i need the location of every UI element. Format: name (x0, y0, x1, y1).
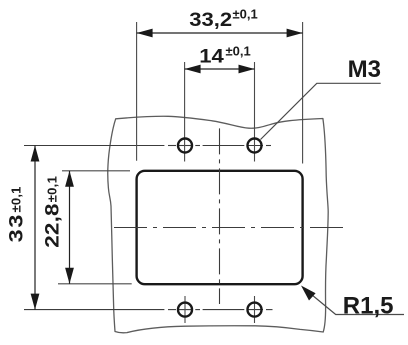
hole bottom-left M3 (178, 303, 192, 317)
svg-text:14: 14 (199, 46, 224, 67)
svg-text:±0,1: ±0,1 (226, 43, 251, 58)
extension lines of dimension 22,8 (62, 170, 130, 172)
dimension line 14 with arrows (185, 68, 255, 70)
svg-text:M3: M3 (348, 56, 381, 83)
dimension text 22,8 ±0,1 (rotated) (42, 176, 63, 248)
svg-text:±0,1: ±0,1 (8, 186, 23, 212)
horizontal centerline (114, 227, 344, 229)
hole top-right M3 (248, 139, 262, 153)
svg-text:33: 33 (5, 213, 26, 243)
extension line 33 top / centerline through top holes (24, 145, 271, 147)
svg-text:22,8: 22,8 (42, 203, 63, 248)
svg-text:33,2: 33,2 (189, 9, 232, 30)
dimension line 33,2 with arrows (137, 32, 303, 34)
extension lines of dimension 14 through top holes (184, 62, 186, 162)
dimension line 33 (vertical, left) with arrows (34, 146, 36, 310)
leader line M3 (261, 83, 381, 139)
vertical centerlines of bottom holes (184, 296, 186, 323)
dimension text 33 ±0,1 (rotated) (5, 186, 26, 242)
svg-text:±0,1: ±0,1 (233, 7, 258, 22)
extension lines of dimension 33,2 (136, 22, 138, 161)
svg-text:R1,5: R1,5 (343, 293, 394, 320)
dimension line 22,8 (vertical) with arrows (69, 171, 71, 284)
extension line 33 bottom / centerline through bottom holes (24, 309, 273, 311)
hole bottom-right M3 (248, 303, 262, 317)
hole top-left M3 (178, 139, 192, 153)
vertical centerline (219, 128, 221, 304)
svg-text:±0,1: ±0,1 (44, 176, 59, 202)
leader line R1,5 with arrow (303, 288, 404, 315)
cutout rounded rectangle 33,2 x 22,8 R1,5 (137, 171, 303, 284)
panel outline (broken-out section) (108, 116, 328, 333)
